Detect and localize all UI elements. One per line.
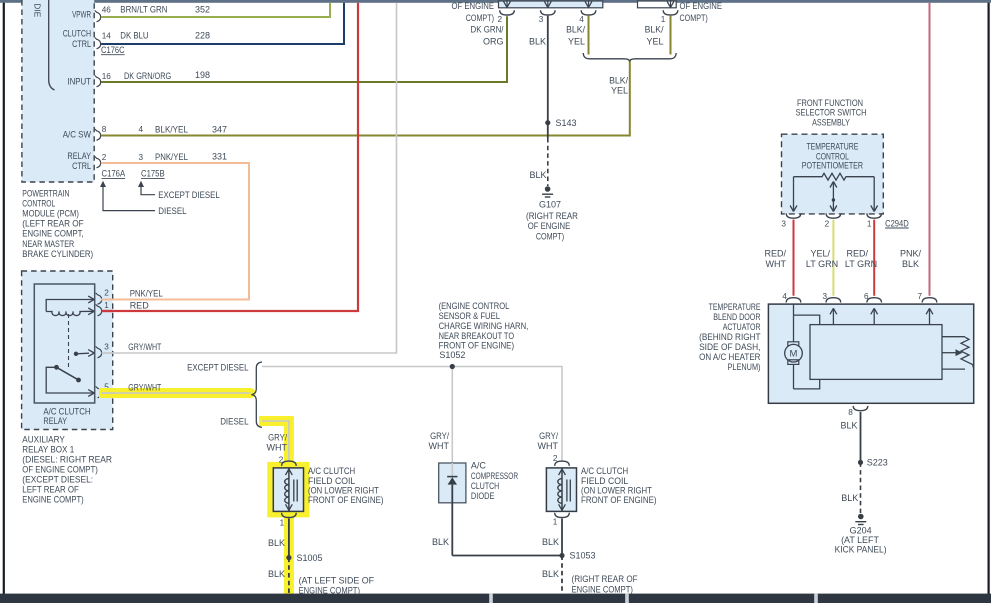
PCM connector pin 16	[97, 77, 101, 87]
svg-text:CTRL: CTRL	[72, 161, 91, 171]
svg-text:2: 2	[102, 153, 107, 162]
svg-text:352: 352	[195, 5, 210, 15]
svg-text:(EXCEPT DIESEL:: (EXCEPT DIESEL:	[22, 475, 93, 485]
svg-text:BLK/: BLK/	[609, 76, 628, 86]
wire RED from relay pin 1	[102, 3, 358, 311]
svg-text:1: 1	[280, 519, 285, 528]
actuator pin 8	[853, 406, 868, 411]
svg-text:BLK/: BLK/	[566, 25, 585, 35]
svg-text:NEAR BREAKOUT TO: NEAR BREAKOUT TO	[439, 331, 514, 341]
wire GRY/WHT from relay pin 5 highlighted	[102, 392, 251, 394]
svg-text:YEL: YEL	[568, 37, 585, 47]
PCM connector pin 2 / 3	[97, 158, 101, 168]
splice S1005	[286, 555, 291, 560]
svg-text:228: 228	[195, 31, 210, 41]
svg-text:YEL: YEL	[646, 37, 663, 47]
svg-text:S1053: S1053	[570, 551, 596, 561]
svg-text:KICK PANEL): KICK PANEL)	[835, 545, 887, 555]
svg-text:C176C: C176C	[101, 45, 125, 55]
splice S223	[858, 460, 863, 465]
svg-text:DIE: DIE	[33, 3, 43, 17]
svg-text:INPUT: INPUT	[67, 77, 91, 87]
svg-text:LT GRN: LT GRN	[806, 259, 838, 269]
wire BLK from pin 8	[860, 412, 862, 463]
actuator input arrows pins 3 6 7	[832, 310, 834, 325]
svg-text:(LEFT REAR OF: (LEFT REAR OF	[22, 219, 84, 229]
wire BLK/YEL from top box 2 pin 1	[670, 16, 672, 55]
svg-text:YEL/: YEL/	[810, 249, 830, 259]
svg-text:VPWR: VPWR	[72, 10, 91, 20]
svg-text:M: M	[790, 349, 798, 360]
svg-text:NEAR MASTER: NEAR MASTER	[22, 239, 74, 249]
svg-text:3: 3	[104, 343, 109, 352]
wire BLK from diode to S1053	[452, 555, 562, 557]
svg-text:S223: S223	[867, 458, 888, 468]
highlight GRY/WHT diesel circuit path	[97, 388, 251, 398]
wire RED/LT GRN pot pin 1	[873, 220, 875, 296]
svg-text:COMPRESSOR: COMPRESSOR	[471, 471, 519, 481]
actuator inner module	[810, 325, 942, 380]
left page border	[3, 0, 5, 595]
svg-text:4: 4	[579, 15, 584, 24]
relay connector cups	[98, 295, 102, 305]
svg-text:46: 46	[102, 6, 112, 15]
svg-text:EXCEPT DIESEL: EXCEPT DIESEL	[158, 190, 219, 200]
svg-text:1: 1	[553, 518, 558, 527]
svg-text:RELAY BOX 1: RELAY BOX 1	[22, 445, 74, 455]
svg-text:DIODE: DIODE	[471, 491, 495, 501]
svg-text:(AT LEFT SIDE OF: (AT LEFT SIDE OF	[299, 576, 375, 586]
svg-text:CLUTCH: CLUTCH	[63, 28, 91, 38]
svg-text:DIESEL: DIESEL	[220, 417, 248, 427]
splice S143	[545, 120, 550, 125]
svg-text:8: 8	[102, 125, 107, 134]
relay contact pin 3	[74, 352, 78, 356]
svg-text:C175B: C175B	[141, 169, 165, 179]
svg-text:ASSEMBLY: ASSEMBLY	[812, 118, 850, 128]
PCM connector pin 46	[97, 12, 101, 22]
wire BLK/YEL 347 A/C SW	[101, 61, 630, 136]
svg-text:FRONT FUNCTION: FRONT FUNCTION	[797, 98, 863, 108]
svg-text:EXCEPT DIESEL: EXCEPT DIESEL	[187, 363, 248, 373]
svg-text:ENGINE COMPT): ENGINE COMPT)	[22, 494, 83, 504]
svg-text:S143: S143	[556, 118, 577, 128]
svg-text:6: 6	[864, 292, 869, 301]
actuator pin cups 4 3 6 7	[786, 298, 801, 303]
svg-text:DK GRN/: DK GRN/	[471, 25, 504, 35]
wire stubs over relay box	[99, 388, 114, 398]
svg-text:4: 4	[782, 292, 787, 301]
svg-text:BLK: BLK	[542, 569, 559, 579]
svg-text:8: 8	[848, 408, 853, 417]
svg-text:ENGINE COMPT): ENGINE COMPT)	[299, 585, 360, 595]
svg-text:A/C CLUTCH: A/C CLUTCH	[308, 466, 355, 476]
svg-text:BLK: BLK	[840, 421, 857, 431]
svg-text:SELECTOR SWITCH: SELECTOR SWITCH	[796, 108, 867, 118]
wire BLK dashed to ground G107	[547, 138, 549, 186]
svg-text:SENSOR & FUEL: SENSOR & FUEL	[439, 311, 500, 321]
svg-text:ENGINE COMPT,: ENGINE COMPT,	[22, 229, 83, 239]
top window band	[0, 0, 991, 3]
second top component box (cut off)	[638, 1, 677, 8]
svg-text:PLENUM): PLENUM)	[728, 362, 761, 372]
svg-text:COMPT): COMPT)	[680, 13, 708, 23]
relay armature dashed link	[68, 314, 70, 367]
top component box (cut off)	[499, 1, 603, 8]
ground G204	[858, 514, 864, 520]
svg-text:BLK: BLK	[902, 259, 919, 269]
svg-text:OF ENGINE: OF ENGINE	[680, 1, 723, 11]
potentiometer legs	[793, 177, 795, 211]
wire BLK to S1053	[561, 519, 563, 556]
svg-text:3: 3	[139, 153, 144, 162]
svg-text:GRY/WHT: GRY/WHT	[128, 342, 161, 352]
wire RED/WHT pot pin 3	[793, 220, 795, 296]
potentiometer connector cups	[786, 213, 801, 218]
wire GRY/WHT except-diesel branch	[262, 367, 562, 463]
svg-text:G204: G204	[850, 526, 872, 536]
wire GRY/WHT diesel branch	[262, 421, 289, 462]
svg-text:ENGINE COMPT): ENGINE COMPT)	[572, 585, 633, 595]
branch brace diesel split	[251, 362, 262, 427]
motor M1 circuit	[793, 304, 795, 315]
wire BRN/LT GRN 352 VPWR	[101, 3, 330, 17]
svg-text:PNK/YEL: PNK/YEL	[155, 152, 188, 162]
merge brace for BLK/YEL wires	[583, 53, 676, 62]
svg-text:A/C: A/C	[471, 461, 487, 471]
svg-text:(RIGHT REAR: (RIGHT REAR	[526, 211, 578, 221]
svg-text:BRN/LT GRN: BRN/LT GRN	[120, 5, 167, 15]
potentiometer resistor	[794, 173, 875, 180]
A/C compressor clutch diode	[439, 463, 466, 503]
relay switch blade	[46, 367, 94, 393]
top box pin 3 arrow	[547, 0, 549, 7]
svg-text:OF ENGINE: OF ENGINE	[528, 221, 571, 231]
svg-text:16: 16	[102, 72, 112, 81]
svg-text:FRONT OF ENGINE): FRONT OF ENGINE)	[581, 495, 657, 505]
wire PNK/YEL 331 RELAY CTRL	[101, 163, 249, 300]
svg-text:BLK: BLK	[432, 537, 449, 547]
svg-text:198: 198	[195, 70, 210, 80]
svg-text:CLUTCH: CLUTCH	[471, 481, 499, 491]
svg-text:BLK: BLK	[529, 170, 546, 180]
svg-text:3: 3	[539, 15, 544, 24]
svg-text:BRAKE CYLINDER): BRAKE CYLINDER)	[22, 249, 93, 259]
svg-text:BLK: BLK	[529, 37, 546, 47]
svg-text:1: 1	[661, 15, 666, 24]
svg-text:FIELD COIL: FIELD COIL	[581, 476, 628, 486]
svg-text:MODULE (PCM): MODULE (PCM)	[22, 209, 79, 219]
svg-text:DIESEL: DIESEL	[158, 206, 186, 216]
svg-text:DK BLU: DK BLU	[120, 31, 148, 41]
svg-text:ON A/C HEATER: ON A/C HEATER	[699, 352, 761, 362]
svg-text:14: 14	[102, 32, 112, 41]
wire DK BLU 228 CLUTCH CTRL	[101, 3, 344, 44]
svg-text:A/C CLUTCH: A/C CLUTCH	[43, 407, 90, 417]
svg-text:RED/: RED/	[846, 249, 868, 259]
svg-text:WHT: WHT	[267, 442, 288, 452]
ground G107	[545, 186, 551, 192]
svg-text:LEFT REAR OF: LEFT REAR OF	[22, 484, 79, 494]
svg-text:TEMPERATURE: TEMPERATURE	[806, 141, 858, 151]
svg-text:7: 7	[917, 292, 922, 301]
svg-text:FRONT OF ENGINE): FRONT OF ENGINE)	[439, 341, 514, 351]
svg-text:GRY/WHT: GRY/WHT	[128, 383, 161, 393]
top box pin 2 arrow	[506, 0, 508, 7]
potentiometer dashed box	[782, 134, 884, 214]
svg-text:FIELD COIL: FIELD COIL	[308, 476, 355, 486]
svg-text:YEL: YEL	[611, 86, 628, 96]
potentiometer wiper	[832, 183, 834, 212]
wire BLK/YEL from top box pin 4	[588, 16, 590, 55]
svg-text:POWERTRAIN: POWERTRAIN	[22, 189, 69, 199]
svg-text:BLK/YEL: BLK/YEL	[155, 125, 188, 135]
svg-text:PNK/YEL: PNK/YEL	[130, 288, 163, 298]
wire BLK dashed to G204	[860, 462, 862, 513]
svg-text:C294D: C294D	[885, 218, 909, 228]
svg-text:331: 331	[212, 152, 227, 162]
splice S1053	[559, 553, 564, 558]
svg-text:PNK/: PNK/	[900, 249, 922, 259]
callout arrow DIESEL to C176A	[103, 187, 155, 211]
svg-text:3: 3	[781, 219, 786, 228]
splice S1052	[451, 367, 453, 464]
relay box A/C CLUTCH RELAY dashed	[22, 271, 113, 430]
svg-text:2: 2	[104, 289, 109, 298]
svg-text:FRONT OF ENGINE): FRONT OF ENGINE)	[308, 495, 384, 505]
svg-text:LT GRN: LT GRN	[845, 259, 877, 269]
svg-text:ACTUATOR: ACTUATOR	[723, 322, 761, 332]
svg-text:RELAY: RELAY	[67, 151, 91, 161]
svg-text:4: 4	[139, 125, 144, 134]
top box pin 4 arrow	[588, 0, 590, 7]
relay coil	[46, 300, 94, 312]
svg-text:G107: G107	[539, 200, 561, 210]
svg-text:TEMPERATURE: TEMPERATURE	[709, 302, 761, 312]
svg-text:WHT: WHT	[538, 441, 559, 451]
svg-text:S1005: S1005	[297, 553, 323, 563]
relay inner case	[34, 284, 94, 403]
svg-text:WHT: WHT	[429, 441, 450, 451]
svg-text:(ON LOWER RIGHT: (ON LOWER RIGHT	[581, 485, 652, 495]
svg-text:(ON LOWER RIGHT: (ON LOWER RIGHT	[308, 485, 379, 495]
wire YEL/LT GRN pot pin 2	[832, 220, 834, 296]
diesel bracket inside PCM	[49, 0, 55, 90]
svg-text:(DIESEL: RIGHT REAR: (DIESEL: RIGHT REAR	[22, 455, 112, 465]
top box 2 pin 1 arrow	[670, 0, 672, 7]
svg-text:RELAY: RELAY	[43, 416, 67, 426]
actuator box	[768, 304, 973, 403]
svg-text:GRY/: GRY/	[539, 431, 558, 441]
module PCM dashed box	[22, 0, 94, 182]
svg-text:C176A: C176A	[102, 169, 126, 179]
svg-text:2: 2	[825, 219, 830, 228]
wire DK GRN/ORG 198 INPUT	[101, 16, 507, 82]
svg-text:CTRL: CTRL	[72, 39, 91, 49]
svg-text:WHT: WHT	[766, 259, 787, 269]
svg-text:2: 2	[498, 15, 503, 24]
right page border	[987, 0, 989, 595]
svg-text:GRY/: GRY/	[430, 431, 449, 441]
wire BLK dashed below S1053	[561, 556, 563, 594]
svg-text:CHARGE WIRING HARN,: CHARGE WIRING HARN,	[439, 321, 529, 331]
wire GRY/WHT from relay pin 3	[102, 3, 397, 353]
svg-text:3: 3	[822, 292, 827, 301]
wire BLK dashed below S1005	[288, 558, 290, 594]
feedback potentiometer	[942, 336, 965, 338]
svg-text:OF ENGINE COMPT): OF ENGINE COMPT)	[22, 465, 98, 475]
svg-text:1: 1	[867, 219, 872, 228]
svg-text:BLK: BLK	[542, 537, 559, 547]
svg-text:RED/: RED/	[764, 249, 786, 259]
bottom window band	[0, 594, 991, 603]
PCM connector pin 14	[97, 39, 101, 49]
svg-text:(ENGINE CONTROL: (ENGINE CONTROL	[439, 301, 510, 311]
svg-text:(RIGHT REAR OF: (RIGHT REAR OF	[572, 574, 639, 584]
svg-text:POTENTIOMETER: POTENTIOMETER	[802, 161, 864, 171]
field coil 1 pin 1	[282, 513, 297, 518]
svg-text:1: 1	[104, 301, 109, 310]
field coil 2 pin 1	[555, 513, 570, 518]
PCM connector pin 8 / 4	[97, 131, 101, 141]
callout arrow EXCEPT DIESEL to C175B	[141, 187, 155, 195]
svg-text:BLK/: BLK/	[645, 25, 664, 35]
wire BLK from top box pin 3	[547, 16, 549, 138]
wire BLK to S1005	[288, 519, 290, 558]
svg-text:(BEHIND RIGHT: (BEHIND RIGHT	[699, 332, 761, 342]
svg-text:COMPT): COMPT)	[536, 232, 564, 242]
svg-text:BLK: BLK	[268, 569, 285, 579]
svg-text:GRY/: GRY/	[268, 433, 287, 443]
svg-text:S1052: S1052	[439, 350, 465, 360]
svg-text:BLK: BLK	[268, 538, 285, 548]
svg-text:CONTROL: CONTROL	[22, 199, 55, 209]
svg-text:BLK: BLK	[841, 493, 858, 503]
svg-text:COMPT): COMPT)	[466, 13, 494, 23]
svg-text:ORG: ORG	[483, 37, 504, 47]
svg-text:RED: RED	[130, 301, 150, 311]
svg-text:347: 347	[212, 124, 227, 134]
svg-text:DK GRN/ORG: DK GRN/ORG	[124, 71, 171, 81]
svg-text:A/C SW: A/C SW	[63, 130, 92, 140]
svg-text:A/C CLUTCH: A/C CLUTCH	[581, 466, 628, 476]
svg-text:OF ENGINE: OF ENGINE	[452, 1, 495, 11]
svg-text:SIDE OF DASH,: SIDE OF DASH,	[699, 342, 760, 352]
wire PNK/BLK from top	[929, 3, 931, 296]
svg-text:BLEND DOOR: BLEND DOOR	[713, 312, 761, 322]
svg-text:AUXILIARY: AUXILIARY	[22, 435, 65, 445]
